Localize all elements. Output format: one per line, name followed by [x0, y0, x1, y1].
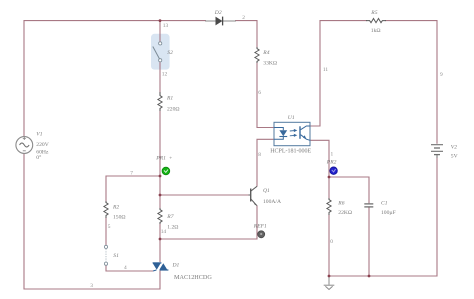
svg-text:U1: U1 [288, 115, 295, 121]
probe PR1 [155, 155, 172, 175]
svg-text:7: 7 [130, 171, 133, 177]
highlight box around S2 [151, 34, 170, 70]
wire R2 bottom to S1 [105, 217, 107, 245]
resistor R6 [327, 198, 352, 216]
svg-text:5: 5 [108, 224, 111, 230]
svg-text:13: 13 [163, 23, 169, 29]
svg-text:0: 0 [330, 239, 333, 245]
wire R1 bottom through PR1 junction to R7 top [159, 109, 161, 209]
wire R7 bottom to node 14 [159, 223, 161, 239]
svg-text:5V: 5V [451, 154, 458, 160]
svg-text:R2: R2 [112, 205, 119, 211]
svg-text:V2: V2 [451, 145, 457, 151]
svg-text:R7: R7 [166, 214, 173, 220]
wire S2 to R1 [159, 62, 161, 95]
wire base: junction to Q1 base [160, 194, 249, 196]
svg-text:22KΩ: 22KΩ [338, 210, 352, 216]
wire U1 collector pin up to top-right rail to R5 [310, 21, 367, 126]
wire S1 bottom to D1 gate [106, 265, 153, 271]
svg-text:11: 11 [323, 67, 328, 73]
svg-text:PR1 +: PR1 + [155, 155, 172, 161]
svg-text:150Ω: 150Ω [113, 215, 126, 221]
svg-text:100A/A: 100A/A [263, 199, 281, 205]
svg-text:14: 14 [161, 229, 167, 235]
ground junction [328, 275, 331, 278]
svg-text:6: 6 [258, 90, 261, 96]
switch S2 [153, 42, 173, 62]
svg-text:MAC12HCDG: MAC12HCDG [174, 274, 212, 281]
wire R5 right to corner down to V2 plus [385, 21, 437, 144]
svg-text:1.2Ω: 1.2Ω [167, 225, 178, 231]
wire top-left rail from V1 to node 13 [24, 21, 160, 137]
wire R6 bottom to ground junction [328, 214, 330, 276]
svg-text:R4: R4 [262, 50, 269, 56]
node 13 junction [159, 19, 162, 22]
resistor R7 [158, 208, 179, 231]
resistor R4 [255, 47, 277, 66]
ground [324, 276, 335, 290]
resistor R2 [104, 201, 126, 221]
svg-text:REF1: REF1 [253, 224, 267, 230]
svg-text:D2: D2 [214, 10, 222, 16]
svg-text:S2: S2 [167, 50, 173, 56]
wire C1 bottom to bottom rail [368, 208, 370, 277]
capacitor C1 [364, 200, 395, 215]
svg-text:R1: R1 [166, 96, 173, 102]
resistor R5 [366, 10, 386, 34]
wire D1 bottom to bottom-left rail back to V1 [24, 154, 160, 290]
svg-text:100µF: 100µF [381, 210, 396, 216]
svg-text:2: 2 [242, 15, 245, 21]
wire U1 emitter pin right and down through PR2 to R6 [310, 140, 329, 199]
diode D2 [205, 10, 236, 26]
wire V2 minus down and left along bottom to ground node [329, 158, 437, 276]
svg-text:4: 4 [124, 265, 127, 271]
svg-text:33KΩ: 33KΩ [263, 60, 277, 66]
switch S1 [104, 245, 119, 265]
svg-text:C1: C1 [381, 200, 388, 206]
battery V2 [431, 145, 458, 160]
probe PR2 [326, 160, 338, 175]
wire U1 cathode pin down to Q1 collector [257, 139, 274, 186]
wire node 14 down to D1 top [159, 239, 161, 262]
node 14 junction [159, 238, 162, 241]
node 1 junction [328, 176, 331, 179]
svg-text:PR2: PR2 [326, 160, 337, 166]
svg-text:0°: 0° [36, 154, 41, 161]
resistor R1 [158, 92, 180, 113]
svg-text:3: 3 [90, 283, 93, 289]
base junction [159, 194, 162, 197]
svg-text:1kΩ: 1kΩ [371, 28, 381, 34]
probe REF1 [253, 224, 267, 238]
svg-text:1: 1 [331, 151, 334, 157]
svg-text:D1: D1 [172, 263, 180, 269]
triac D1 [153, 263, 213, 282]
wire S2 branch: node 13 down to S2 [159, 21, 161, 42]
svg-text:R5: R5 [370, 10, 377, 16]
transistor Q1 [249, 186, 282, 206]
wire node 13 to D2 anode [160, 20, 206, 22]
svg-text:HCPL-181-000E: HCPL-181-000E [270, 148, 311, 154]
voltage source V1 [16, 131, 49, 161]
svg-text:V1: V1 [36, 131, 42, 137]
wire node 1 junction right to C1 top [329, 177, 369, 203]
svg-text:9: 9 [440, 72, 443, 78]
C1 bottom junction [368, 275, 371, 278]
svg-text:S1: S1 [113, 253, 119, 259]
svg-text:R6: R6 [337, 200, 344, 206]
svg-text:8: 8 [258, 152, 261, 158]
svg-text:12: 12 [162, 71, 168, 77]
node 7 junction [159, 175, 162, 178]
wire node 7 junction to R2 top [106, 176, 160, 203]
wire D2 cathode to corner and down to R4 [235, 21, 257, 48]
svg-text:Q1: Q1 [263, 188, 270, 194]
wire R4 bottom to U1 anode pin [257, 62, 274, 128]
svg-text:220Ω: 220Ω [167, 107, 180, 113]
svg-text:220V: 220V [36, 142, 48, 148]
wire Q1 emitter down and left to node 14 junction [160, 206, 257, 240]
opto-coupler U1 [270, 115, 311, 155]
